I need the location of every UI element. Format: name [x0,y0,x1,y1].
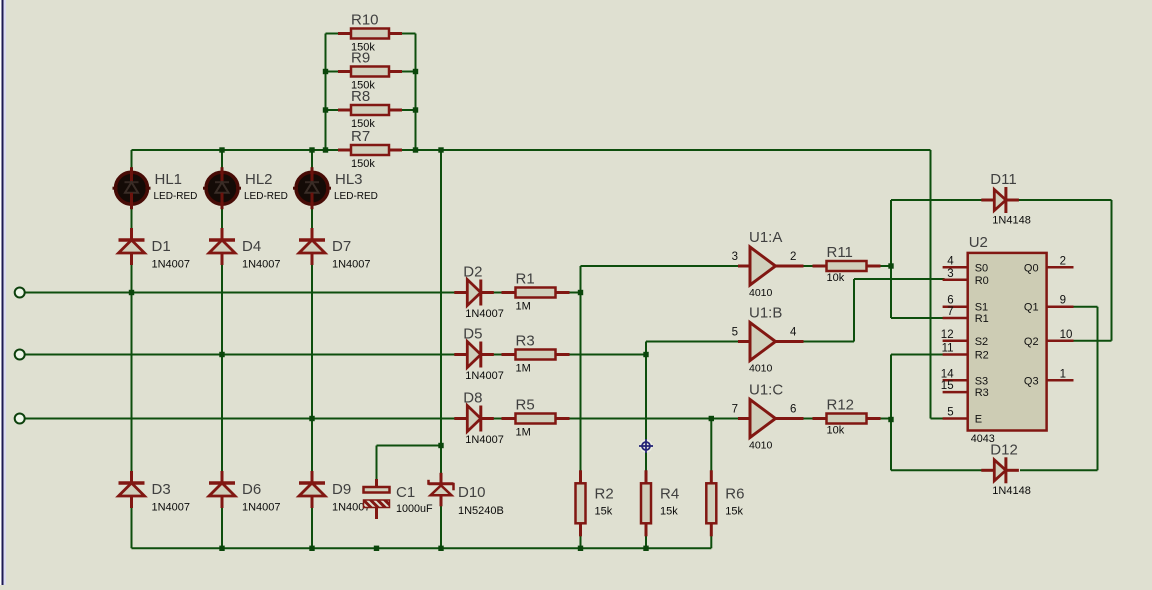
junction rail-supply [438,147,443,152]
resistor R11 [813,244,881,284]
svg-text:9: 9 [1060,295,1066,307]
svg-text:1N5240B: 1N5240B [458,505,504,517]
wire column HL1/D1/D3 [131,150,133,548]
junction rail-bank-left [323,147,328,152]
wire column HL2/D4/D6 [221,150,223,548]
svg-text:15k: 15k [725,505,743,517]
wire node B vertical (R2/R12/D12) [890,355,892,471]
diode D11 [981,171,1031,227]
resistor R8 [338,88,402,130]
svg-text:D4: D4 [242,238,261,255]
wire Q2 loop vertical [1111,200,1113,341]
svg-text:4: 4 [947,255,954,267]
wire Q1 loop vertical [1097,307,1099,471]
svg-text:7: 7 [732,404,738,416]
wire R5 output vertical to R6 [710,419,712,549]
svg-text:R10: R10 [351,12,379,29]
svg-text:R3: R3 [516,333,535,350]
junction bank-left R8 [323,107,328,112]
svg-text:R11: R11 [827,244,853,261]
svg-text:R7: R7 [351,128,370,145]
svg-text:D7: D7 [332,238,351,255]
svg-text:15: 15 [941,380,954,392]
wire R3 output vertical to R4 [645,342,647,549]
U2 pin 6 S1 [943,295,989,314]
wire C1 top to supply [377,445,442,447]
wire to U1:A input [581,265,743,267]
svg-text:150k: 150k [351,158,375,170]
svg-text:5: 5 [732,327,738,339]
wire to U2 pin E [931,418,945,420]
U2 pin 1 Q3 [1024,368,1074,387]
svg-text:R1: R1 [516,271,535,288]
svg-text:D5: D5 [463,326,482,343]
svg-text:15k: 15k [595,505,613,517]
resistor R3 [502,333,570,375]
svg-text:E: E [975,414,982,426]
svg-text:R1: R1 [975,313,989,325]
svg-text:4010: 4010 [749,440,773,452]
svg-text:4010: 4010 [749,287,773,299]
origin marker [639,439,653,453]
LED HL1 [113,167,198,209]
diode D12 [981,441,1031,497]
wire bank stub left 71.5 [326,71,342,73]
junction bottom-col3 [309,546,314,551]
svg-text:3: 3 [732,251,738,263]
svg-text:10k: 10k [827,272,845,284]
svg-text:R6: R6 [725,485,744,502]
junction R3 output [643,352,648,357]
diode D2 [454,264,504,321]
svg-text:D3: D3 [152,481,171,498]
U2 pin 12 S2 [941,329,988,348]
junction row1-col1 [129,290,134,295]
svg-text:R2: R2 [595,485,614,502]
svg-text:7: 7 [947,306,953,318]
svg-text:D6: D6 [242,481,261,498]
svg-text:R3: R3 [975,387,989,399]
wire input row 1 [24,292,581,294]
svg-text:1N4007: 1N4007 [242,502,281,514]
resistor R4 [641,470,679,536]
junction bottom-D10 [438,546,443,551]
svg-text:1000uF: 1000uF [396,503,433,515]
wire node A vertical (D11/R11/R1) [890,200,892,318]
junction bottom-col2 [219,546,224,551]
resistor R1 [502,271,570,313]
diode D1 [119,228,191,271]
wire R1 output vertical to R2 [580,266,582,548]
svg-text:U1:A: U1:A [749,229,782,246]
svg-text:5: 5 [947,407,953,419]
svg-text:D11: D11 [990,171,1016,188]
U2 pin 9 Q1 [1024,295,1074,314]
wire to D11 anode [891,199,994,201]
svg-text:6: 6 [947,295,953,307]
svg-text:2: 2 [1060,255,1066,267]
svg-text:D1: D1 [152,238,171,255]
diode D9 [299,471,371,514]
resistor R2 [576,470,614,536]
wire D11 cathode to Q2 loop [1008,199,1112,201]
junction rail-col2 [219,147,224,152]
junction C1-supply [438,443,443,448]
wire bank stub left 33.5 [326,33,342,35]
svg-text:D9: D9 [332,481,351,498]
svg-text:LED-RED: LED-RED [244,191,288,202]
wire C1 top vertical [376,446,378,488]
svg-text:D10: D10 [458,484,486,501]
diode D3 [119,471,191,514]
resistor R10 [338,12,402,54]
svg-text:R0: R0 [975,275,989,287]
wire U1:B output [775,341,854,343]
wire column HL3/D7/D9 [311,150,313,548]
svg-text:R8: R8 [351,88,370,105]
svg-text:11: 11 [942,343,954,355]
junction node A R11 [888,263,893,268]
wire input row 3 [24,418,742,420]
svg-text:LED-RED: LED-RED [334,191,378,202]
svg-text:S3: S3 [975,375,988,387]
junction rail-bank-right [413,147,418,152]
svg-text:HL3: HL3 [335,171,363,188]
svg-text:C1: C1 [396,484,415,501]
svg-text:Q0: Q0 [1024,262,1039,274]
svg-text:1N4007: 1N4007 [242,259,281,271]
junction bank-right R8 [413,107,418,112]
svg-text:Q1: Q1 [1024,302,1039,314]
svg-text:1: 1 [1060,368,1066,380]
svg-text:Q3: Q3 [1024,375,1039,387]
buffer U1:C [732,382,804,452]
junction R5 output [709,416,714,421]
U2 pin 2 Q0 [1024,255,1074,274]
wire resistor-bank left vertical [325,34,327,151]
wire top supply rail [132,149,931,151]
svg-text:10: 10 [1060,329,1073,341]
wire U1:C output to R12 to node [775,418,891,420]
svg-text:1N4007: 1N4007 [152,259,191,271]
junction node B R12 [888,417,893,422]
svg-text:HL1: HL1 [155,171,183,188]
wire input row 2 [24,354,646,356]
svg-text:2: 2 [790,251,796,263]
svg-text:U1:C: U1:C [749,382,783,399]
wire bank stub left 110 [326,109,342,111]
wire from U2 pin Q1 [1074,306,1098,308]
terminal input 1 [15,288,25,298]
U2 pin 15 R3 [941,380,989,399]
svg-text:3: 3 [947,268,953,280]
diode D6 [209,471,281,514]
buffer U1:A [732,229,804,299]
resistor R5 [502,397,570,439]
svg-text:1M: 1M [516,427,531,439]
svg-text:R4: R4 [660,485,679,502]
LED HL3 [293,167,378,209]
svg-text:S1: S1 [975,302,988,314]
wire to D12 anode [891,469,982,471]
svg-text:14: 14 [941,368,954,380]
U2 pin 10 Q2 [1024,329,1074,348]
wire supply to E vertical [930,150,932,419]
wire bottom rail [132,547,712,549]
junction bank-right R9 [413,69,418,74]
capacitor C1 [364,479,434,519]
wire to U2 pin R1 [891,317,945,319]
svg-text:1M: 1M [516,363,531,375]
resistor R12 [813,397,881,437]
svg-text:R9: R9 [351,50,370,67]
svg-text:1N4148: 1N4148 [992,215,1031,227]
resistor R9 [338,50,402,92]
junction bottom-R4 [643,546,648,551]
svg-text:1N4007: 1N4007 [152,502,191,514]
svg-text:U2: U2 [969,234,988,251]
zener diode D10 [429,473,504,517]
svg-text:HL2: HL2 [245,171,273,188]
wire bank stub right 33.5 [400,33,416,35]
U2 pin 7 R1 [943,306,989,325]
svg-text:4: 4 [790,327,797,339]
svg-text:R5: R5 [516,397,535,414]
junction bottom-R2 [578,546,583,551]
junction row2-col2 [219,352,224,357]
wire bank stub right 71.5 [400,71,416,73]
svg-text:4043: 4043 [971,433,995,445]
svg-text:1N4007: 1N4007 [465,370,504,382]
svg-text:15k: 15k [660,505,678,517]
svg-text:R12: R12 [827,397,855,414]
diode D8 [454,390,504,447]
diode D4 [209,228,281,271]
svg-text:1N4007: 1N4007 [465,308,504,320]
terminal input 3 [15,414,25,424]
svg-text:LED-RED: LED-RED [154,191,198,202]
svg-text:4010: 4010 [749,363,773,375]
wire U1:A output to R11 to node [775,265,891,267]
svg-text:1N4007: 1N4007 [332,259,371,271]
resistor R6 [706,470,744,536]
wire bank stub right 110 [400,109,416,111]
svg-text:S2: S2 [975,336,988,348]
svg-text:D8: D8 [463,390,482,407]
U2 pin 4 S0 [943,255,989,274]
svg-text:U1:B: U1:B [749,305,782,322]
svg-text:1M: 1M [516,301,531,313]
svg-text:6: 6 [790,404,796,416]
wire to U1:B input [646,341,742,343]
buffer U1:B [732,305,804,375]
wire to U2 pin R2 [891,354,945,356]
diode D5 [454,326,504,383]
svg-text:1N4007: 1N4007 [465,434,504,446]
resistor R7 [338,128,402,170]
U2 pin 11 R2 [942,343,989,362]
LED HL2 [203,167,288,209]
U2 pin 14 S3 [941,368,988,387]
svg-text:Q2: Q2 [1024,336,1039,348]
U2 pin 5 E [943,407,982,426]
junction row3-col3 [309,416,314,421]
junction bank-left R9 [323,69,328,74]
svg-text:S0: S0 [975,262,988,274]
svg-text:10k: 10k [827,425,845,437]
svg-text:12: 12 [941,329,954,341]
U2 pin 3 R0 [943,268,989,287]
svg-text:R2: R2 [975,350,989,362]
svg-text:D2: D2 [463,264,482,281]
junction rail-col3 [309,147,314,152]
svg-text:1N4148: 1N4148 [992,485,1031,497]
terminal input 2 [15,350,25,360]
wire resistor-bank right vertical [415,34,417,151]
junction bottom-C1 [374,546,379,551]
wire supply vertical to D10 [440,150,442,548]
junction R1 output [578,290,583,295]
wire to U2 pin R0 [854,278,945,280]
wire U1:B output vertical [853,279,855,342]
IC U2 4043 [968,234,1047,445]
wire D12 cathode to Q1 loop [1020,469,1098,471]
diode D7 [299,228,371,271]
wire from U2 pin Q2 [1074,340,1112,342]
